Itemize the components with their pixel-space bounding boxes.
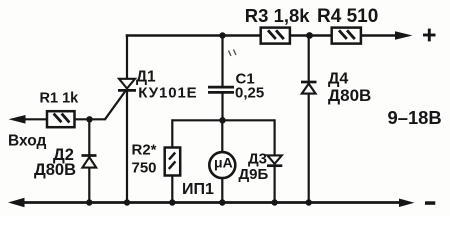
junction dot loop top — [219, 117, 225, 123]
resistor R2 — [165, 148, 181, 176]
node A junction dot — [86, 116, 92, 122]
svg-text:R4 510: R4 510 — [317, 6, 378, 27]
diode D2 — [82, 156, 97, 168]
resistor R4 — [332, 28, 361, 44]
input arrow Вход — [9, 115, 26, 124]
svg-text:R1 1k: R1 1k — [40, 91, 80, 107]
junction dot D4 bottom — [306, 199, 312, 205]
svg-text:Д1: Д1 — [136, 69, 156, 86]
diode D3 — [267, 155, 282, 165]
svg-text:Д3: Д3 — [248, 151, 267, 168]
svg-text:R3 1,8k: R3 1,8k — [245, 5, 311, 26]
wire D1 cathode to bottom rail — [126, 90, 128, 202]
junction dot D2 at bottom rail — [86, 199, 92, 205]
wire D3 to bottom rail — [274, 166, 276, 203]
thyristor D1 — [118, 79, 136, 91]
power + terminal arrow — [395, 29, 436, 42]
wire R2 to bottom rail — [171, 176, 173, 203]
svg-text:Д80В: Д80В — [328, 86, 371, 105]
svg-text:0,25: 0,25 — [235, 85, 264, 102]
svg-text:9–18В: 9–18В — [388, 107, 442, 128]
wire C1 branch from top rail — [221, 36, 223, 87]
wire R2 branch top — [171, 119, 173, 147]
wire R1 to node A — [75, 118, 107, 120]
wire top supply rail — [126, 34, 399, 37]
svg-text:μA: μA — [214, 154, 233, 170]
svg-text:R2*: R2* — [132, 141, 157, 158]
svg-text:ИП1: ИП1 — [182, 181, 214, 198]
capacitor C1 — [208, 87, 234, 92]
wire bottom supply rail — [22, 201, 400, 204]
wire meter loop top — [172, 119, 274, 121]
wire C1 to meter loop — [221, 94, 223, 121]
junction dot R3-R4 node — [306, 32, 313, 39]
wire D1 anode from top rail — [126, 34, 128, 79]
wire gate of D1 (diagonal) — [105, 91, 125, 119]
junction dot R2 bottom — [169, 199, 175, 205]
scan artifact mark near C1 top — [229, 50, 237, 57]
svg-text:КУ101Е: КУ101Е — [138, 85, 197, 102]
resistor R3 — [261, 28, 290, 44]
resistor R1 — [47, 111, 75, 127]
wire meter top lead — [221, 120, 223, 152]
junction dot D1 at bottom rail — [124, 199, 130, 205]
power - terminal arrow (right) — [399, 199, 435, 208]
junction dot meter bottom — [219, 199, 225, 205]
svg-text:Д9Б: Д9Б — [239, 166, 269, 183]
svg-text:750: 750 — [132, 159, 157, 176]
junction dot D3 bottom — [271, 199, 277, 205]
meter U1 (microammeter) — [209, 152, 235, 178]
diode D4 — [301, 82, 317, 94]
wire D4 branch vertical — [308, 36, 310, 203]
input arrow (bottom-left of bottom rail) — [8, 198, 25, 208]
wire input lead (left, to R1) — [23, 118, 47, 120]
wire D2 branch vertical — [88, 119, 90, 202]
wire meter bottom lead — [221, 178, 223, 203]
svg-text:Д80В: Д80В — [34, 161, 76, 179]
wire D3 branch top — [274, 119, 276, 155]
junction dot C1 top — [219, 32, 225, 38]
svg-text:Вход: Вход — [8, 132, 46, 149]
